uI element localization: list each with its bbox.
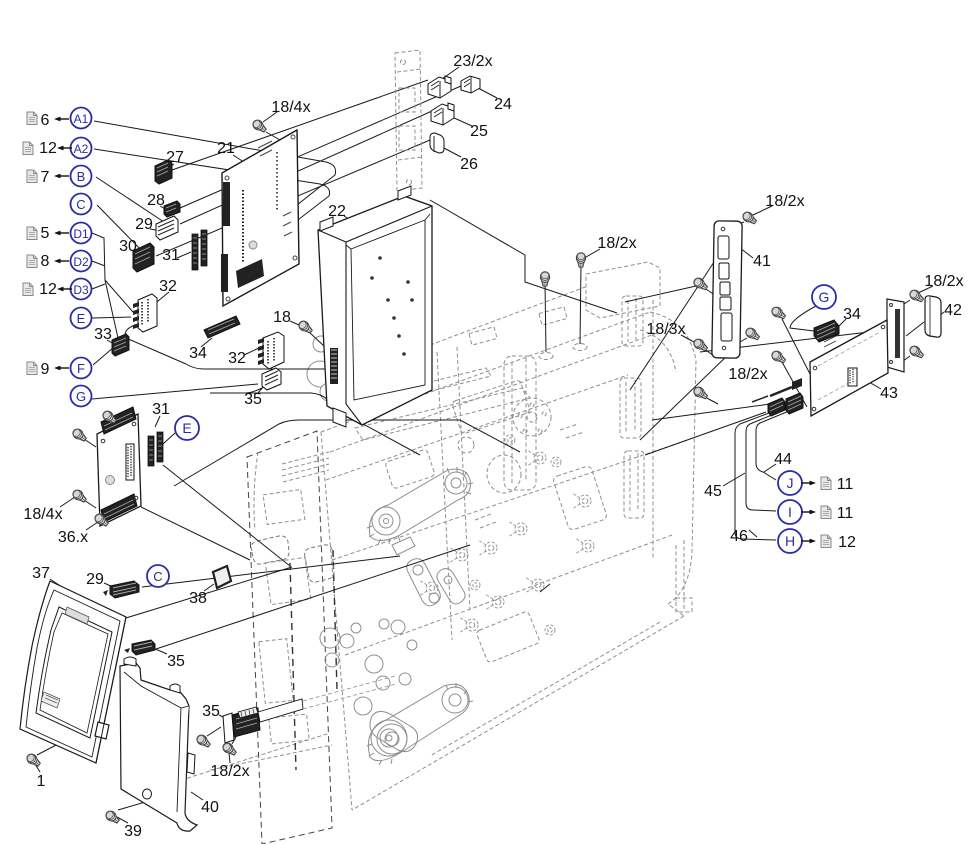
screw 18/2x mid a xyxy=(576,253,585,268)
belt lower pulley big xyxy=(371,720,407,756)
dashed screw 6 xyxy=(449,547,468,563)
align 18/3x a xyxy=(703,287,716,296)
belt assembly upper xyxy=(369,469,470,540)
circle I xyxy=(778,500,802,524)
chassis rear upper channel inner xyxy=(628,298,636,342)
face window 2 xyxy=(385,449,435,489)
dashed screw 4 xyxy=(572,493,591,509)
leader 18/2x mid xyxy=(586,249,600,257)
svg-text:18/4x: 18/4x xyxy=(271,99,310,116)
strip bracket dashed xyxy=(395,50,422,191)
PCB 43 xyxy=(810,320,888,416)
svg-text:39: 39 xyxy=(124,823,142,840)
circle H xyxy=(778,529,802,553)
screw 18/2x bl b xyxy=(221,741,238,757)
leader 34b xyxy=(836,319,846,329)
plate41 slot 1 xyxy=(718,236,729,259)
svg-text:26: 26 xyxy=(460,156,478,173)
arrow J xyxy=(801,481,816,486)
wire A1 bus xyxy=(94,121,336,250)
leader 35d xyxy=(219,715,229,720)
doc 11b xyxy=(821,506,831,519)
screw 43 b xyxy=(770,349,787,365)
leader 24 xyxy=(478,88,497,98)
cover40 tab xyxy=(187,753,195,774)
arrow 12b xyxy=(57,287,72,292)
align 18/4x xyxy=(266,132,296,149)
svg-text:11: 11 xyxy=(837,476,854,493)
chassis bottom right bracket xyxy=(676,598,692,612)
wire B to 29 xyxy=(96,177,170,226)
dashed screw 3 xyxy=(478,540,497,556)
svg-text:1: 1 xyxy=(37,773,46,790)
doc 7 xyxy=(27,170,37,183)
leader 25 xyxy=(452,117,472,126)
leader 34 xyxy=(201,338,212,347)
align 18/2x tr xyxy=(726,222,744,230)
face window 3 xyxy=(552,465,607,531)
connector 35d DB9 xyxy=(223,676,396,743)
bezel side line xyxy=(96,617,126,763)
circle J xyxy=(778,471,802,495)
link pivot c xyxy=(444,576,452,584)
leader 46 xyxy=(749,530,757,537)
connector h xyxy=(768,398,785,416)
PCB43 dashed hidden xyxy=(818,332,880,400)
cover40 hole xyxy=(143,789,152,799)
connector 27 xyxy=(155,160,172,184)
PCB 36.x xyxy=(97,407,141,526)
face vertical seam 1 xyxy=(437,352,452,640)
svg-text:E: E xyxy=(77,311,86,326)
connector 29 xyxy=(156,216,178,240)
DB9 rod xyxy=(258,699,303,722)
wire stub pin xyxy=(752,396,768,402)
screw 18/2x bl a xyxy=(195,733,212,749)
leader 36x xyxy=(86,520,101,530)
cover40 fold edge xyxy=(124,672,189,812)
circle A1 xyxy=(71,108,92,129)
screw 43 d xyxy=(908,344,925,360)
align 36x b xyxy=(112,420,119,426)
dashed screw 1 xyxy=(527,450,546,466)
chassis bottom edge xyxy=(352,616,684,810)
leader 18 xyxy=(290,321,299,325)
dashed screw 2 xyxy=(508,521,527,537)
chassis rear channel 2 xyxy=(624,451,644,518)
dashed screw 14 xyxy=(545,625,555,635)
svg-text:23/2x: 23/2x xyxy=(453,53,492,70)
plate41 slot 5 xyxy=(721,313,732,341)
svg-text:18/2x: 18/2x xyxy=(765,193,804,210)
doc 5 xyxy=(27,227,37,240)
deck small rect a xyxy=(469,327,497,345)
front frame top corner arc xyxy=(254,452,258,530)
arrow 7 xyxy=(54,174,69,179)
face small tabs xyxy=(475,424,584,528)
face vertical seam 2 xyxy=(457,347,470,610)
svg-text:A1: A1 xyxy=(74,112,89,126)
PCB36 gray screw xyxy=(106,476,115,485)
svg-text:18: 18 xyxy=(273,309,291,326)
screw 18/2x mid b xyxy=(540,272,549,287)
box 22 xyxy=(318,186,432,427)
belt assembly lower xyxy=(368,684,469,760)
belt upper ticks xyxy=(367,467,473,544)
svg-text:32: 32 xyxy=(228,350,246,367)
svg-text:22: 22 xyxy=(328,203,346,220)
svg-text:31: 31 xyxy=(152,401,170,418)
dashed screws in machine xyxy=(419,435,594,635)
dashed screw 7 xyxy=(485,594,504,610)
align 18/3x c xyxy=(703,396,718,404)
box22 inner lines xyxy=(346,214,430,249)
plate41 slot 2 xyxy=(719,263,729,279)
screw shaft 18/2x b xyxy=(580,264,581,344)
doc 12c xyxy=(821,535,831,548)
face seam 1 xyxy=(326,375,628,480)
svg-text:9: 9 xyxy=(41,361,50,378)
circle D2 xyxy=(71,251,92,272)
svg-text:12: 12 xyxy=(838,534,856,551)
wire D bus xyxy=(92,233,133,338)
line 21 to deck xyxy=(430,200,617,313)
dashed screw 10 xyxy=(459,617,478,633)
part 42 xyxy=(925,296,941,337)
align 1 xyxy=(37,742,62,755)
front roller blob xyxy=(370,711,418,751)
chassis deck corner plate xyxy=(586,262,660,318)
align 43 a xyxy=(782,319,810,374)
screw 36x b xyxy=(71,427,88,443)
circle G2 xyxy=(812,285,836,309)
wire stub j xyxy=(770,387,792,396)
leader 22 xyxy=(344,216,357,224)
deck small rect b xyxy=(539,307,567,325)
leader 26 xyxy=(442,147,461,157)
arrow I xyxy=(801,510,816,515)
screw 43 a xyxy=(770,305,787,321)
chassis rear channel 1 inner xyxy=(626,380,635,434)
wire bus 32a down xyxy=(125,325,396,369)
bezel top slot xyxy=(65,607,89,624)
leader 45 xyxy=(723,473,745,486)
link arm 2 xyxy=(437,569,465,604)
belt lower pulley small xyxy=(442,687,468,713)
screw 36x a xyxy=(101,409,118,425)
plate41 slot 3 xyxy=(720,282,730,295)
connector 30 xyxy=(133,243,154,272)
chassis deck hole B xyxy=(573,344,587,351)
box22 front edge xyxy=(346,242,362,425)
svg-text:J: J xyxy=(787,475,794,491)
part 38 xyxy=(213,566,231,588)
bezel tab xyxy=(95,722,109,739)
line 27 to 23 xyxy=(172,80,428,170)
svg-text:38: 38 xyxy=(189,590,207,607)
chassis front face left edge xyxy=(321,432,352,810)
bezel screen xyxy=(36,607,112,738)
align 43 c xyxy=(898,300,910,308)
svg-text:29: 29 xyxy=(135,216,153,233)
cover40 ear a xyxy=(124,657,136,666)
screw 41 a xyxy=(692,276,709,292)
PCB21 connector left top xyxy=(223,182,230,226)
front frame panel xyxy=(247,431,332,844)
svg-text:7: 7 xyxy=(41,169,50,186)
PCB21 connector left bottom xyxy=(221,254,228,292)
PCB43 connector mid xyxy=(848,368,857,386)
front frame cutout 3 xyxy=(259,639,293,704)
PCB21 corner holes xyxy=(225,176,229,180)
box22 inner cavity xyxy=(351,220,425,400)
circle F xyxy=(71,358,92,379)
leader 33 xyxy=(107,340,114,344)
leader 27 xyxy=(163,164,174,172)
link arm 1 xyxy=(407,559,441,606)
motor cyl 1 xyxy=(313,336,329,352)
doc 9 xyxy=(27,362,37,375)
dashed screw 9 xyxy=(525,577,544,593)
dashed screw 5 xyxy=(575,538,594,554)
svg-text:21: 21 xyxy=(217,140,235,157)
screw 41 b xyxy=(744,326,761,342)
svg-text:41: 41 xyxy=(753,253,771,270)
svg-text:B: B xyxy=(77,169,86,184)
circle C xyxy=(71,194,92,215)
connector 33 xyxy=(112,334,129,356)
plate41 slot 4 xyxy=(720,297,731,310)
box22 connector strip xyxy=(330,348,338,384)
leader 29 xyxy=(150,229,161,231)
connector 31b xyxy=(148,432,163,466)
leader 18/4x b xyxy=(60,497,75,507)
svg-text:34: 34 xyxy=(189,345,207,362)
wire H 46 xyxy=(735,413,776,540)
svg-text:45: 45 xyxy=(704,483,722,500)
arrow 12a xyxy=(57,146,72,151)
svg-text:D2: D2 xyxy=(73,255,89,269)
leader 23/2x xyxy=(442,67,459,79)
leader 43 xyxy=(862,378,881,389)
wire 36x to front 2 xyxy=(141,507,250,560)
leader 42 xyxy=(939,312,944,316)
doc 6 xyxy=(27,112,37,125)
line 28 to 24 xyxy=(180,86,461,208)
align 39 xyxy=(118,800,152,810)
connector 35c xyxy=(124,640,155,655)
screw 18/4x top xyxy=(251,118,268,134)
chassis right end rounded xyxy=(650,312,696,616)
svg-text:18/4x: 18/4x xyxy=(23,506,62,523)
align 43 b xyxy=(782,362,807,407)
box22 flange tab a xyxy=(320,217,333,231)
wire bus 36x xyxy=(174,420,520,486)
cover 40 xyxy=(120,657,197,831)
wire bus 35b down xyxy=(210,388,420,455)
connector 23 xyxy=(428,76,451,98)
screw 18 xyxy=(297,319,314,335)
front gear cluster xyxy=(320,628,340,648)
leader 18/2x far xyxy=(918,286,933,293)
wire E to 32 xyxy=(92,317,131,318)
flange disc center xyxy=(527,412,537,422)
belt upper pulley small xyxy=(445,472,467,494)
connector 29c xyxy=(103,581,139,598)
leader 38 xyxy=(204,584,214,591)
front frame cutout 2 xyxy=(265,557,310,604)
svg-text:36.x: 36.x xyxy=(58,529,88,546)
svg-text:28: 28 xyxy=(147,192,165,209)
bracket 43 xyxy=(887,299,904,372)
leader 1 xyxy=(35,764,40,772)
connector 24 xyxy=(461,76,480,93)
wire C to 30 xyxy=(97,205,148,257)
svg-text:30: 30 xyxy=(119,238,137,255)
svg-text:C: C xyxy=(76,197,85,212)
PCB21 details xyxy=(258,141,292,236)
chassis hidden bottom rail b xyxy=(210,745,332,770)
circle C2 xyxy=(147,565,169,587)
chassis rear channel 2 inner xyxy=(630,453,638,513)
flange disc bolt holes xyxy=(518,403,546,433)
chassis top rear rail xyxy=(430,286,588,345)
chassis deck hole A xyxy=(539,353,553,360)
arrow 6 xyxy=(54,117,69,122)
align 42 xyxy=(906,322,924,336)
link pivot b xyxy=(429,593,439,603)
wire J 44 xyxy=(756,411,789,480)
line machine to 43 xyxy=(645,330,886,455)
wire bezel to frame xyxy=(126,567,292,618)
small disc xyxy=(458,437,474,453)
front frame cutout 4 xyxy=(269,714,310,744)
line 30 to 26 xyxy=(156,140,430,256)
leader 29c xyxy=(104,583,113,587)
align 41 r xyxy=(733,338,747,346)
PCB36 connector top xyxy=(101,407,136,434)
face seam 3 xyxy=(345,535,672,655)
leader 18/2x tr xyxy=(753,206,772,215)
belt lower ticks xyxy=(367,683,473,765)
svg-text:12: 12 xyxy=(39,281,57,298)
connector 25 xyxy=(431,103,454,125)
svg-text:43: 43 xyxy=(880,385,898,402)
PCB21 pin column 2 xyxy=(276,152,278,210)
leader 31b xyxy=(155,416,160,427)
screw 18/2x tr xyxy=(741,210,758,226)
bezel screen inner xyxy=(40,613,108,733)
align 18/2x bl b xyxy=(232,737,236,744)
svg-text:35: 35 xyxy=(202,703,220,720)
chassis hidden bottom rail a xyxy=(150,733,330,790)
align 18/2x bl a xyxy=(207,727,221,736)
chassis bottom right vertical xyxy=(676,540,684,612)
leader 30 xyxy=(134,252,141,257)
box22 flange tab b xyxy=(398,186,411,200)
box22 screws dots xyxy=(370,256,414,356)
svg-text:18/2x: 18/2x xyxy=(728,366,767,383)
wire 29c to machine xyxy=(142,556,400,587)
leader 32 xyxy=(152,292,169,306)
link pivot a xyxy=(413,565,423,575)
PCB 43 assembly xyxy=(810,299,904,416)
dashed screw 8 xyxy=(419,580,438,596)
svg-text:18/2x: 18/2x xyxy=(597,235,636,252)
wire I 45 xyxy=(746,414,776,511)
svg-text:34: 34 xyxy=(843,306,861,323)
circle D1 xyxy=(71,223,92,244)
chassis rear upper channel xyxy=(622,296,643,346)
chassis mid channel xyxy=(504,356,536,490)
circle B xyxy=(71,166,92,187)
align 43 d xyxy=(899,356,910,364)
front frame inner verticals xyxy=(290,550,337,770)
chassis mid channel inner xyxy=(512,358,526,484)
svg-text:C: C xyxy=(153,569,162,584)
leader 35b xyxy=(258,386,264,393)
align 18/3x b xyxy=(703,348,714,356)
leader 39 xyxy=(117,817,128,823)
leader 35c xyxy=(153,648,167,654)
PCB36 connector mid xyxy=(126,444,134,480)
leader 40 xyxy=(191,792,203,800)
wire G2 to 34 xyxy=(790,306,816,331)
arrow 9 xyxy=(54,366,69,371)
bezel 37 xyxy=(20,581,126,763)
line 29 to 25 xyxy=(180,111,432,224)
chassis top deck edge xyxy=(321,312,650,432)
wire F to 33 xyxy=(93,347,114,365)
chassis right end inner arc xyxy=(640,330,676,372)
svg-text:H: H xyxy=(785,533,795,549)
box22 bottom tab xyxy=(333,408,346,427)
flange disc with holes xyxy=(513,398,551,436)
connector 31 xyxy=(192,230,207,270)
chassis top deck edge 2 xyxy=(330,332,660,452)
svg-text:8: 8 xyxy=(41,253,50,270)
svg-text:29: 29 xyxy=(86,571,104,588)
leader 18/3x xyxy=(681,335,694,342)
wire 36x to front xyxy=(163,465,290,566)
svg-text:6: 6 xyxy=(41,112,50,129)
circle E2 xyxy=(175,416,199,440)
leader 18b xyxy=(540,584,550,592)
dashed screw 11 xyxy=(551,457,561,467)
svg-text:12: 12 xyxy=(39,140,57,157)
chassis rear edge xyxy=(652,300,654,560)
screw 1 xyxy=(25,752,42,768)
chassis deck rail 2 xyxy=(390,368,491,400)
motor cyl 3 xyxy=(320,383,338,401)
PCB43 top details xyxy=(824,336,836,347)
svg-text:46: 46 xyxy=(730,528,748,545)
connector j xyxy=(792,378,802,390)
chassis bottom edge 2 xyxy=(430,622,660,756)
screw 43 c xyxy=(908,288,925,304)
PCB21 connector bottom xyxy=(236,259,264,288)
gray solid machine internals xyxy=(320,467,473,765)
lever plate xyxy=(392,537,415,555)
circle E xyxy=(71,308,92,329)
plate41 holes xyxy=(721,227,725,231)
screw 18/3x b xyxy=(692,385,709,401)
connector i xyxy=(786,393,803,414)
svg-text:G: G xyxy=(76,389,86,404)
arrow H xyxy=(801,539,816,544)
svg-text:44: 44 xyxy=(774,451,792,468)
screw 36x c xyxy=(71,488,88,504)
